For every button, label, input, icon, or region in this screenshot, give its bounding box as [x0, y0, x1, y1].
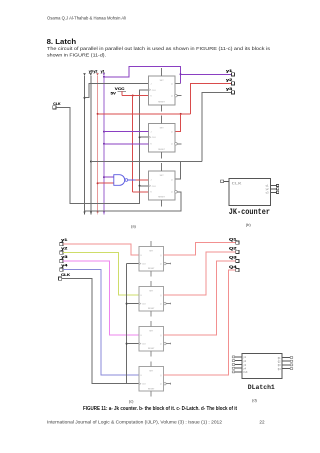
fig-c input connector y4: [60, 268, 63, 271]
svg-text:CLK: CLK: [61, 273, 71, 277]
fig-a net y1 wire over FF1 to output y1: [104, 66, 181, 83]
svg-text:CLK: CLK: [243, 371, 248, 374]
fig-a vertical bus wire (unlabeled, feeds FF1 J): [84, 75, 86, 211]
fig-a output connector y3: [231, 91, 234, 94]
fig-c input connector y1: [60, 243, 63, 246]
svg-text:y4: y4: [61, 264, 67, 268]
fig-a red junction to NAND input B: [97, 182, 99, 184]
svg-text:(d): (d): [252, 398, 258, 403]
svg-text:22: 22: [259, 420, 265, 425]
fig-a net y1: junction on purple bus: [103, 76, 105, 78]
fig-c output connector Q2: [236, 250, 239, 253]
svg-text:RESET: RESET: [158, 197, 166, 199]
fig-c flip-flop U7 (D FF): [139, 321, 164, 356]
fig-c wire y4 to FF4 D: [63, 270, 139, 375]
fig-b output pin y1: [265, 184, 278, 187]
svg-text:CLK: CLK: [152, 137, 157, 139]
svg-text:The circuit of parallel in pa: The circuit of parallel in parallel out …: [47, 46, 271, 51]
svg-text:Q4: Q4: [229, 265, 237, 269]
fig-a FF2 K wire from purple bus: [103, 143, 149, 145]
fig-a VCC vertical bus wire: [132, 96, 134, 192]
svg-text:y3: y3: [89, 69, 93, 73]
fig-c clock wire to FF4 CLK: [127, 383, 139, 385]
svg-text:y3: y3: [265, 191, 269, 194]
fig-c wire y1 to FF1 D: [63, 244, 139, 255]
fig-d DLatch1 block box: [242, 353, 282, 378]
fig-a CLK input connector: [53, 106, 56, 109]
fig-b JK-counter block box: [229, 178, 270, 205]
svg-text:CLK: CLK: [152, 90, 157, 92]
svg-text:CLK: CLK: [142, 304, 147, 306]
fig-a clock bus junction to FF2 CLK: [139, 136, 141, 138]
fig-a CLK wire to clock bus: [56, 90, 149, 204]
fig-a bottom terminal of bus y1: [103, 211, 105, 213]
fig-a FF1 Q stub wire: [175, 83, 181, 85]
fig-c clock junction to FF2 CLK: [126, 303, 128, 305]
fig-a purple junction to NAND input A: [103, 176, 105, 178]
svg-text:RESET: RESET: [158, 149, 166, 151]
fig-c wire FF2 Q to output Q2: [164, 252, 236, 295]
fig-a input terminal arrow (unlabeled net): [83, 73, 86, 75]
fig-a vertical bus wire y3: [90, 75, 92, 211]
fig-a input terminal arrow y1: [103, 73, 106, 75]
fig-a input terminal arrow y3: [90, 73, 93, 75]
fig-c flip-flop U8 (D FF): [139, 361, 164, 396]
fig-d input pin y4: [232, 367, 246, 370]
fig-c clock bus vertical: [126, 264, 128, 384]
fig-c wire FF1 Q to output Q1: [164, 243, 236, 255]
fig-a net y2: junction on red bus: [97, 113, 99, 115]
svg-text:RESET: RESET: [148, 348, 155, 350]
fig-a VCC bus junction: [132, 95, 134, 97]
fig-c output connector Q1: [236, 241, 239, 244]
fig-a bottom terminal of bus 1: [84, 211, 86, 213]
fig-a FF2 J wire from purple bus: [103, 131, 149, 133]
fig-c U7 not-Q bubble and stub: [164, 342, 171, 344]
fig-a net y2 wire from FF2 Q to output y2: [98, 113, 191, 115]
fig-c output connector Q3: [236, 259, 239, 262]
fig-c U5 not-Q bubble and stub: [164, 262, 171, 264]
fig-c wire CLK to clock bus: [62, 279, 127, 384]
fig-d input pin y1: [232, 356, 246, 359]
fig-a flip-flop U2 (JK FF1): [149, 68, 175, 112]
svg-text:CLK: CLK: [142, 264, 147, 266]
fig-c wire y2 to FF2 D: [63, 253, 139, 295]
svg-text:Q1: Q1: [229, 237, 237, 241]
svg-text:shown in FIGURE (11-d).: shown in FIGURE (11-d).: [47, 52, 106, 57]
fig-a VCC power symbol: [118, 90, 126, 92]
svg-text:Osama Q.J Al-Thahab & Hanaa Mo: Osama Q.J Al-Thahab & Hanaa Mohsin Ali: [47, 15, 126, 20]
svg-text:International Journal of Logic: International Journal of Logic & Computa…: [47, 420, 222, 425]
svg-text:J: J: [150, 180, 151, 182]
fig-a vertical bus wire y1 (purple): [103, 75, 105, 211]
fig-a net y3: junction on y3 bus: [90, 161, 92, 163]
svg-text:(c): (c): [129, 398, 134, 403]
fig-d output pin Q2: [278, 360, 293, 363]
fig-b CLK pin stub: [221, 180, 229, 183]
svg-text:y1: y1: [101, 69, 105, 73]
fig-a bottom terminal of bus y3: [90, 211, 92, 213]
fig-c output connector Q4: [236, 269, 239, 272]
svg-text:CLK: CLK: [142, 384, 147, 386]
fig-a FF2 not-Q bubble and stub: [175, 143, 182, 146]
fig-c U8 not-Q bubble and stub: [164, 383, 171, 385]
svg-text:8. Latch: 8. Latch: [47, 39, 77, 46]
svg-text:RESET: RESET: [148, 388, 155, 390]
fig-a FF3 not-Q bubble: [175, 191, 178, 194]
fig-a output connector y1: [231, 73, 234, 76]
svg-text:FIGURE 11: a- Jk counter. b- t: FIGURE 11: a- Jk counter. b- the block o…: [83, 406, 237, 412]
fig-a input terminal arrow y2: [96, 73, 99, 75]
fig-c clock wire to FF1 CLK: [127, 263, 139, 265]
fig-a vertical bus wire y2 (red): [97, 75, 99, 211]
fig-c flip-flop U6 (D FF): [139, 281, 164, 316]
fig-b output pin y3: [265, 191, 278, 194]
fig-a flip-flop U4 (JK FF3): [149, 163, 175, 206]
fig-a output connector y2: [231, 82, 234, 85]
svg-text:(a): (a): [131, 224, 137, 229]
fig-c U6 not-Q bubble and stub: [164, 302, 171, 304]
fig-d output pin Q3: [278, 364, 293, 367]
svg-text:JK-counter: JK-counter: [229, 208, 270, 217]
svg-text:y1: y1: [61, 238, 67, 242]
fig-c input connector CLK: [59, 277, 62, 280]
svg-text:J: J: [150, 132, 151, 134]
fig-a NAND output wire to FF3 J: [128, 179, 136, 181]
fig-d output pin Q1: [278, 357, 293, 360]
svg-text:y2: y2: [61, 247, 67, 251]
fig-a FF1 not-Q bubble and stub: [175, 94, 182, 97]
fig-b output pin y2: [265, 188, 278, 191]
fig-d input pin y3: [232, 364, 246, 367]
svg-text:y2: y2: [93, 69, 97, 73]
fig-a bottom terminal of bus y2: [97, 211, 99, 213]
svg-text:VCC: VCC: [115, 87, 125, 91]
svg-text:y3: y3: [61, 255, 67, 259]
fig-a FF3 not-Q feedback wire to bottom bus: [85, 192, 181, 211]
fig-d input pin CLK: [232, 371, 248, 374]
fig-a net y3 wire from FF3 Q to output y3: [91, 161, 202, 163]
fig-d output pin Q4: [278, 368, 293, 371]
fig-c input connector y3: [60, 260, 63, 263]
fig-a VCC wire to FF3 K: [133, 191, 149, 193]
fig-c wire FF3 Q to output Q3: [164, 261, 236, 335]
fig-a VCC wire to FF1 K: [121, 91, 123, 95]
svg-text:5V: 5V: [111, 92, 117, 96]
fig-a wire bus1 to FF1 J input: [84, 97, 86, 99]
svg-text:RESET: RESET: [148, 268, 155, 270]
svg-text:CLK: CLK: [142, 344, 147, 346]
svg-text:(b): (b): [246, 222, 252, 227]
fig-c flip-flop U5 (D FF): [139, 241, 164, 276]
svg-text:Q2: Q2: [229, 247, 237, 251]
svg-text:RESET: RESET: [158, 102, 166, 104]
svg-text:CLK: CLK: [232, 182, 243, 186]
fig-c clock junction to FF3 CLK: [126, 343, 128, 345]
svg-text:CLK: CLK: [152, 186, 157, 188]
fig-c wire y3 to FF3 D: [63, 261, 139, 335]
fig-a clock bus junction to FF3 CLK: [139, 185, 141, 187]
svg-text:RESET: RESET: [148, 308, 155, 310]
fig-c input connector y2: [60, 251, 63, 254]
fig-a flip-flop U3 (JK FF2): [149, 115, 175, 158]
fig-a NAND gate U1: [114, 175, 125, 186]
svg-text:DLatch1: DLatch1: [248, 384, 275, 391]
svg-text:J: J: [150, 84, 151, 86]
fig-d input pin y2: [232, 360, 246, 363]
fig-c wire FF4 Q to output Q4: [164, 270, 236, 375]
